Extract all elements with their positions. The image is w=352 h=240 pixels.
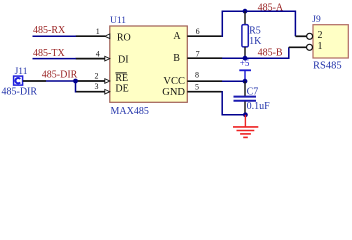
svg-text:485-DIR: 485-DIR [42, 70, 78, 81]
svg-text:RO: RO [117, 32, 131, 43]
pin 6 A lead [187, 35, 221, 37]
svg-text:485-B: 485-B [258, 48, 283, 59]
pin 4 DI lead [76, 56, 110, 61]
pin lead J11 [23, 80, 46, 82]
svg-text:DI: DI [118, 54, 129, 65]
svg-text:3: 3 [95, 82, 99, 91]
wire 485-DIR [46, 80, 76, 82]
svg-text:1K: 1K [249, 36, 262, 47]
connector J9 [313, 25, 348, 58]
svg-text:1: 1 [318, 41, 323, 52]
svg-text:C7: C7 [247, 87, 259, 98]
svg-text:+5: +5 [240, 58, 250, 68]
svg-text:7: 7 [196, 49, 200, 58]
svg-text:485-A: 485-A [258, 2, 284, 13]
svg-text:6: 6 [196, 27, 200, 36]
junction node GND [243, 112, 248, 117]
capacitor C7 [234, 81, 257, 115]
svg-text:A: A [173, 31, 181, 42]
svg-text:RE: RE [115, 73, 128, 84]
op-amp U11 body (MAX485 transceiver) [110, 26, 188, 102]
svg-text:1: 1 [96, 27, 100, 36]
svg-text:485-TX: 485-TX [33, 48, 65, 59]
svg-text:0.1uF: 0.1uF [247, 101, 271, 112]
wire pin6 to net 485-A [222, 11, 296, 36]
pin 3 DE lead [76, 89, 110, 94]
svg-text:DE: DE [115, 83, 128, 94]
svg-text:B: B [173, 53, 180, 64]
wire pin7 to net 485-B [222, 47, 289, 58]
wire 485-RX [33, 35, 77, 37]
svg-text:8: 8 [195, 71, 199, 80]
svg-text:U11: U11 [110, 16, 126, 26]
pin 5 GND lead [187, 91, 221, 93]
pin 2 RE lead [76, 79, 110, 84]
svg-text:MAX485: MAX485 [111, 106, 149, 117]
pin 1 RO lead [76, 34, 110, 39]
connector J11 [14, 76, 23, 85]
pin 8 VCC lead [187, 80, 222, 82]
svg-text:485-DIR: 485-DIR [2, 87, 38, 98]
junction node B / R5 bottom [243, 56, 248, 61]
svg-text:R5: R5 [249, 26, 261, 37]
power +5 [239, 58, 251, 81]
svg-text:J9: J9 [312, 15, 321, 25]
J9 pin 2 [295, 30, 322, 41]
svg-text:2: 2 [95, 71, 99, 80]
svg-text:VCC: VCC [163, 76, 185, 87]
resistor R5 [242, 11, 248, 58]
junction node A / R5 top [243, 9, 248, 14]
ground [233, 115, 258, 138]
svg-text:5: 5 [195, 82, 199, 91]
wire 485-TX [33, 58, 77, 60]
pin 7 B lead [187, 57, 222, 59]
svg-text:J11: J11 [15, 67, 28, 77]
svg-text:2: 2 [318, 30, 323, 41]
svg-text:4: 4 [96, 49, 100, 58]
wire pin8 VCC [222, 80, 245, 82]
svg-text:GND: GND [162, 87, 185, 98]
junction node VCC [243, 79, 248, 84]
svg-text:485-RX: 485-RX [33, 25, 66, 36]
J9 pin 1 [289, 41, 323, 52]
junction DIR node [73, 79, 78, 84]
wire DIR to DE [75, 81, 78, 92]
svg-text:RS485: RS485 [313, 60, 342, 71]
wire pin5 GND to ground [222, 92, 246, 115]
